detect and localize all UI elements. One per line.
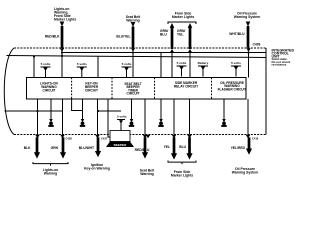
svg-text:RELAY CIRCUIT: RELAY CIRCUIT xyxy=(174,84,198,88)
svg-text:5 volts: 5 volts xyxy=(177,61,187,65)
svg-text:GRN: GRN xyxy=(51,146,59,150)
svg-text:Marker Lights: Marker Lights xyxy=(54,18,76,22)
svg-text:Warning System: Warning System xyxy=(234,15,260,19)
svg-text:Warning: Warning xyxy=(126,19,139,23)
svg-text:BLU/WHT: BLU/WHT xyxy=(79,146,94,150)
svg-text:BLK: BLK xyxy=(24,146,31,150)
svg-text:Battery: Battery xyxy=(198,61,209,65)
svg-text:FLASHER CIRCUIT: FLASHER CIRCUIT xyxy=(218,88,247,92)
svg-text:Marker Lights: Marker Lights xyxy=(171,174,193,178)
svg-text:Key-on Warning: Key-on Warning xyxy=(84,167,110,171)
svg-text:5 volts: 5 volts xyxy=(41,62,51,66)
svg-text:resistance.: resistance. xyxy=(272,63,288,67)
svg-text:5 volts: 5 volts xyxy=(122,62,132,66)
svg-text:CIRCUIT: CIRCUIT xyxy=(43,88,56,92)
svg-text:CIRCUIT: CIRCUIT xyxy=(127,92,140,96)
svg-text:Warning: Warning xyxy=(140,172,153,176)
svg-text:YEL/RED: YEL/RED xyxy=(231,146,246,150)
svg-text:RED/BLU: RED/BLU xyxy=(135,148,150,152)
svg-text:YEL: YEL xyxy=(177,33,183,37)
svg-text:BLU: BLU xyxy=(179,145,186,149)
svg-text:WHT/BLU: WHT/BLU xyxy=(229,32,245,36)
svg-text:5 volts: 5 volts xyxy=(117,115,127,119)
svg-text:CIRCUIT: CIRCUIT xyxy=(85,88,98,92)
svg-text:BEEPER: BEEPER xyxy=(114,143,127,147)
svg-text:RED/BLK: RED/BLK xyxy=(45,35,60,39)
svg-text:Warning System: Warning System xyxy=(232,171,258,175)
svg-text:YEL: YEL xyxy=(164,145,170,149)
svg-text:C437: C437 xyxy=(101,137,108,141)
svg-text:Warning: Warning xyxy=(44,172,57,176)
svg-text:BLU: BLU xyxy=(160,33,167,37)
svg-text:C409: C409 xyxy=(253,43,261,47)
svg-text:5 volts: 5 volts xyxy=(231,61,241,65)
svg-text:Marker Lights: Marker Lights xyxy=(172,15,194,19)
svg-text:C416: C416 xyxy=(252,137,259,141)
svg-text:5 volts: 5 volts xyxy=(77,62,87,66)
svg-text:C438: C438 xyxy=(66,137,73,141)
svg-text:BLU/YEL: BLU/YEL xyxy=(116,35,130,39)
